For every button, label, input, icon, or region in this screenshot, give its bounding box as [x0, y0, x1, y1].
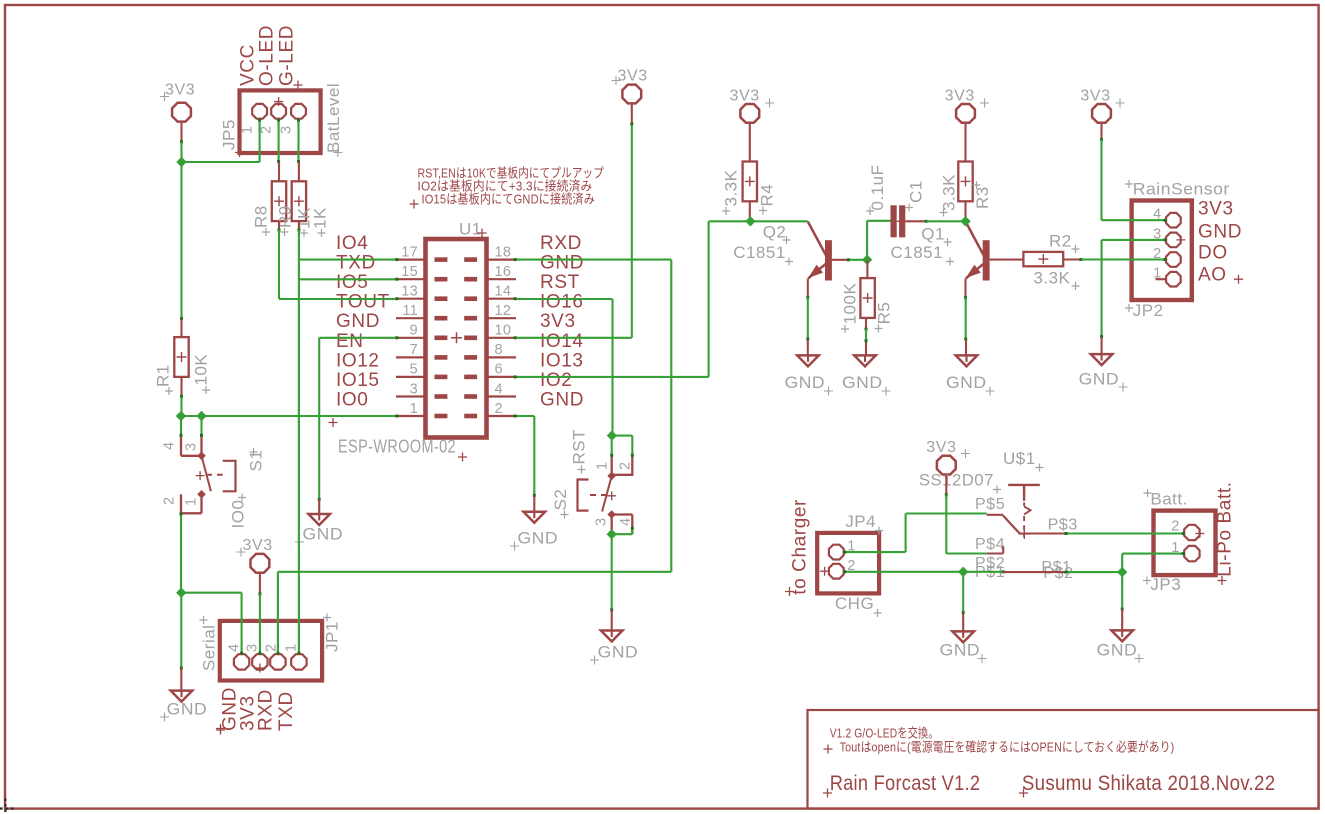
supply 3V3 (top middle, feeds U1 pin10): [612, 68, 648, 104]
wire junction to P$1: [963, 571, 1003, 573]
wire to P$5: [906, 512, 987, 514]
svg-text:RST: RST: [570, 429, 589, 465]
U1 pin leads and pads: [396, 257, 516, 418]
wire R5 bottom stub: [865, 318, 867, 329]
svg-text:GND: GND: [1079, 370, 1120, 389]
svg-text:IO0: IO0: [229, 500, 248, 529]
svg-text:3V3: 3V3: [165, 82, 195, 99]
ground (R5): [842, 355, 891, 395]
wire JP3 ground drop: [1121, 572, 1123, 609]
switch S1 IO0 pushbutton: [181, 435, 236, 513]
JP4 value CHG: [835, 594, 882, 617]
wire S2 pin4 bottom link: [612, 533, 633, 535]
svg-text:Q1: Q1: [921, 225, 945, 244]
junction Q2 base R5 C1: [862, 255, 872, 265]
connector JP1 Serial: [216, 621, 322, 733]
note box texts: [823, 726, 1275, 798]
svg-text:U$1: U$1: [1003, 449, 1036, 468]
U1 value label ESP-WROOM-02: [338, 437, 467, 462]
wire Q1 ground stub: [965, 339, 967, 355]
R2 labels: [1033, 232, 1079, 291]
svg-text:12: 12: [495, 303, 512, 319]
JP1 value Serial: [200, 616, 219, 671]
JP4 pin numbers: [847, 539, 855, 574]
wire GND row drop: [318, 338, 320, 499]
svg-text:IO0: IO0: [336, 389, 368, 410]
wire S2 pin2 branch: [612, 435, 632, 437]
wire rail to ground: [180, 593, 182, 669]
wire 3V3 to R3: [964, 123, 966, 161]
wire JP1 pin2 riser: [277, 572, 279, 654]
S1 refdes: [247, 448, 266, 472]
svg-text:3: 3: [594, 518, 610, 526]
wire R5 to ground: [865, 329, 867, 341]
svg-text:DO: DO: [1198, 243, 1228, 264]
svg-text:JP4: JP4: [845, 512, 876, 531]
svg-text:R2: R2: [1049, 232, 1072, 251]
wire IO4 row: [299, 259, 396, 261]
wire TXD net vertical R9 to JP1 pin1: [298, 230, 300, 654]
connector JP4 CHG to-Charger: [817, 533, 879, 594]
svg-text:AO: AO: [1198, 265, 1227, 286]
JP2 value RainSensor: [1125, 180, 1230, 199]
wire P$4 pin lead: [987, 552, 1004, 554]
svg-text:3: 3: [279, 126, 295, 134]
svg-text:GND: GND: [1097, 641, 1138, 660]
wire S2 pin3 to ground: [611, 534, 613, 609]
svg-text:3V3: 3V3: [730, 88, 760, 105]
Q2 labels: [733, 223, 793, 266]
Q1 labels: [891, 225, 955, 266]
resistor R2 body: [1023, 252, 1063, 266]
resistor R4 body: [743, 162, 757, 202]
U1 pin names right: [540, 233, 584, 410]
wire 3V3 JP2 stub: [1100, 123, 1102, 139]
svg-text:3: 3: [245, 644, 261, 652]
svg-text:IO15: IO15: [336, 370, 380, 391]
svg-text:3V3: 3V3: [926, 439, 956, 456]
svg-text:14: 14: [495, 284, 512, 300]
junction serial GND branch: [176, 588, 186, 598]
svg-text:JP5: JP5: [220, 119, 239, 150]
wire Q1 emitter to ground: [965, 297, 967, 339]
wire junction to C1: [866, 221, 868, 260]
wire R2 right stub: [1063, 258, 1081, 260]
svg-text:R8: R8: [252, 205, 271, 228]
svg-text:2: 2: [1171, 519, 1179, 535]
svg-text:GND: GND: [946, 373, 987, 392]
wire GND stub U1 pin9: [318, 499, 320, 514]
wire Q2 base to R5 C1 junction: [850, 259, 867, 261]
resistor R1 body: [174, 337, 188, 377]
wire C1 right stub: [905, 220, 926, 222]
svg-text:16: 16: [495, 264, 512, 280]
ground (U1 pin9 row): [295, 514, 343, 547]
JP1 pin numbers: [227, 644, 300, 652]
svg-text:ESP-WROOM-02: ESP-WROOM-02: [338, 437, 456, 457]
wire Q2 emitter drop: [807, 279, 809, 298]
wire 3V3 down to P$4 row: [945, 495, 947, 554]
svg-text:2: 2: [618, 462, 634, 470]
JP4 name to Charger: [785, 499, 811, 596]
svg-text:0.1uF: 0.1uF: [868, 165, 887, 211]
supply 3V3 (above U$1 switch): [926, 439, 970, 475]
connector JP2 RainSensor: [1132, 201, 1243, 301]
wire R2 to JP2 pin2: [1081, 258, 1166, 260]
svg-text:JP2: JP2: [1133, 301, 1164, 320]
resistor R3 body: [958, 162, 972, 202]
R4 labels: [722, 169, 777, 215]
transistor Q1 C1851: [966, 222, 990, 281]
svg-text:GND: GND: [940, 641, 981, 660]
wire P$3 to JP3 pin2: [1066, 532, 1184, 534]
wire endpoint dots at U1 pins: [395, 258, 398, 261]
wire R9 top stub: [298, 162, 300, 182]
wire ground stub left rail: [180, 668, 182, 690]
wire 3V3 to JP5 pin1: [182, 161, 260, 163]
JP5 pin names VCC O-LED G-LED: [238, 25, 303, 90]
svg-text:100K: 100K: [841, 283, 860, 325]
svg-text:4: 4: [227, 644, 243, 652]
wire 3V3 left rail upper: [180, 142, 182, 163]
wire RST row U1 pin14: [516, 298, 613, 300]
wire JP2 pin3 to ground: [1101, 240, 1103, 337]
wire 3V3 mid stub: [631, 104, 633, 124]
svg-text:RST: RST: [540, 272, 580, 293]
svg-text:9: 9: [410, 323, 418, 339]
wire S1 pin4 drop: [180, 416, 182, 436]
svg-text:17: 17: [401, 244, 418, 260]
JP5 refdes: [220, 119, 239, 150]
svg-text:P$5: P$5: [975, 496, 1005, 513]
U1 pin numbers right: [495, 244, 512, 416]
svg-text:C1851: C1851: [891, 243, 944, 262]
JP2 pin names: [1198, 199, 1242, 286]
wire GND row U1 pin9: [319, 337, 396, 339]
svg-text:V1.2 G/O-LEDを交換。: V1.2 G/O-LEDを交換。: [830, 726, 939, 741]
sheet origin dotted crosshair: [0, 807, 17, 809]
svg-text:3V3: 3V3: [243, 537, 273, 554]
wire to JP2 pin4: [1102, 219, 1166, 221]
wire JP3 ground stub: [1121, 609, 1123, 631]
ground (S2): [590, 631, 638, 665]
svg-text:7: 7: [410, 342, 418, 358]
svg-text:G-LED: G-LED: [277, 25, 298, 86]
title note box: [808, 710, 1319, 809]
svg-text:RXD: RXD: [256, 689, 277, 731]
svg-text:Rain Forcast V1.2: Rain Forcast V1.2: [830, 772, 981, 795]
S2 pin numbers: [594, 462, 635, 526]
supply 3V3 (left, feeds JP5): [160, 82, 195, 122]
wire R5 ground stub: [865, 341, 867, 355]
wire 3V3 to R4: [749, 123, 751, 161]
U1 pin numbers left: [401, 244, 418, 416]
svg-text:1: 1: [284, 644, 300, 652]
wire R3 bottom stub: [964, 201, 966, 221]
svg-text:JP3: JP3: [1150, 575, 1181, 594]
wire Q2 base stub: [832, 259, 850, 261]
ground (JP4 / bottom left): [940, 631, 987, 663]
svg-text:15: 15: [401, 264, 418, 280]
svg-text:GND: GND: [518, 529, 559, 548]
svg-text:1: 1: [184, 498, 200, 506]
wire rail to JP1 pin4: [181, 592, 241, 594]
svg-text:2: 2: [495, 401, 503, 417]
svg-text:GND: GND: [1198, 222, 1242, 243]
svg-text:Serial: Serial: [200, 625, 219, 671]
svg-text:IO13: IO13: [540, 350, 584, 371]
wire RST vertical to S2: [611, 299, 613, 436]
svg-text:SS12D07: SS12D07: [919, 471, 994, 490]
capacitor C1 plates: [891, 205, 906, 237]
R1 labels: [154, 354, 211, 395]
svg-text:1: 1: [240, 126, 256, 134]
svg-text:3V3: 3V3: [945, 88, 975, 105]
wire JP4 pin1 out: [844, 551, 905, 553]
wire JP4 ground drop: [962, 572, 964, 613]
U$1 refdes: [1003, 449, 1044, 472]
svg-text:RainSensor: RainSensor: [1133, 180, 1230, 199]
ground (JP3 / bottom right): [1097, 630, 1144, 663]
svg-text:to Charger: to Charger: [790, 499, 811, 595]
svg-text:5: 5: [410, 362, 418, 378]
svg-text:O-LED: O-LED: [257, 25, 278, 86]
svg-text:TXD: TXD: [276, 691, 297, 731]
ground (left rail / JP1): [160, 691, 207, 722]
wire RXD vertical: [670, 260, 672, 572]
junction IO0 row left: [176, 411, 186, 421]
svg-text:Li-Po Batt.: Li-Po Batt.: [1215, 481, 1236, 576]
S1 pin numbers: [162, 442, 200, 506]
wire R8 to IO5 row: [278, 230, 280, 299]
svg-text:2: 2: [162, 497, 178, 505]
wire P$5 pin lead: [987, 514, 1004, 516]
JP1 pin names GND 3V3 RXD TXD: [216, 687, 297, 735]
svg-text:R3: R3: [973, 186, 992, 209]
JP5 value BatLevel: [324, 83, 343, 157]
wire R9 bottom stub: [298, 221, 300, 230]
svg-text:3V3: 3V3: [1198, 199, 1234, 220]
connector JP5 BatLevel: [235, 90, 321, 157]
svg-text:3V3: 3V3: [540, 311, 576, 332]
svg-text:BatLevel: BatLevel: [324, 83, 343, 153]
U$1 value SS12D07: [919, 471, 1001, 494]
switch U$1 SS12D07: [1003, 485, 1040, 539]
JP2 pin numbers: [1153, 207, 1161, 282]
wire 3V3 serial stub: [259, 573, 261, 594]
svg-text:11: 11: [402, 303, 418, 319]
R8 R9 labels: [252, 205, 330, 237]
svg-text:S2: S2: [551, 489, 570, 511]
wire IO0 row to U1 pin1: [181, 415, 396, 417]
svg-text:GND: GND: [303, 525, 344, 544]
svg-text:6: 6: [495, 362, 503, 378]
svg-text:4: 4: [162, 442, 178, 450]
wire S2 ground stub: [611, 610, 613, 631]
junction JP4 GND: [958, 567, 968, 577]
svg-text:R4: R4: [758, 184, 777, 207]
wire JP2 pin3 row: [1102, 239, 1166, 241]
svg-text:3.3K: 3.3K: [940, 174, 959, 211]
switch S2 RST pushbutton: [578, 455, 633, 534]
svg-text:GND: GND: [540, 253, 584, 274]
junction R3 Q1 collector: [960, 216, 970, 226]
svg-text:10K: 10K: [192, 354, 211, 386]
svg-text:1K: 1K: [311, 207, 330, 229]
U$1 pin labels: [975, 496, 1078, 582]
junction R4 Q2 collector: [745, 216, 755, 226]
wire Q1 base to R2: [990, 259, 1024, 261]
note text about pullups: [410, 166, 605, 209]
wire GND stub U1 pin2: [533, 495, 535, 512]
S2 value RST: [570, 429, 589, 474]
svg-text:3V3: 3V3: [618, 68, 648, 85]
svg-text:3.3K: 3.3K: [722, 169, 741, 206]
wire JP5 pin2 to R8: [278, 119, 280, 161]
wire Q2 emitter to ground: [807, 297, 809, 339]
R3 labels: [940, 174, 993, 217]
wire IO13 vertical: [708, 221, 710, 377]
JP3 refdes: [1143, 575, 1181, 594]
wire 3V3 U$1 stub: [945, 475, 947, 495]
wire RXD horizontal to JP1 pin2: [278, 571, 671, 573]
svg-text:10: 10: [495, 323, 512, 339]
wire junction to Q2 collector: [750, 220, 807, 222]
svg-text:1: 1: [595, 462, 611, 470]
S1 value IO0: [229, 494, 248, 529]
wire R1 to IO0 row: [180, 397, 182, 416]
svg-text:R5: R5: [875, 302, 894, 325]
wire P$2 to JP3 junction: [1066, 571, 1122, 573]
wire R1 bottom stub: [180, 377, 182, 397]
wire JP4 ground stub: [962, 613, 964, 632]
svg-text:GND: GND: [167, 700, 208, 719]
svg-text:2: 2: [259, 126, 275, 134]
wire S1 pin3 drop: [200, 416, 202, 436]
svg-text:IO2: IO2: [540, 370, 572, 391]
wire JP4 pin1 riser: [905, 514, 907, 553]
svg-text:IO5: IO5: [336, 272, 368, 293]
wire R8 bottom stub: [278, 221, 280, 230]
wire R5 top stub: [866, 260, 868, 278]
svg-text:TXD: TXD: [336, 253, 376, 274]
ground (JP2): [1079, 354, 1128, 391]
svg-text:GND: GND: [785, 373, 826, 392]
wire 3V3 left stub: [180, 122, 182, 142]
svg-text:EN: EN: [336, 331, 364, 352]
svg-text:CHG: CHG: [835, 594, 874, 613]
wire IO13 to R4 junction: [709, 220, 751, 222]
svg-text:U1: U1: [459, 220, 482, 239]
svg-text:GND: GND: [842, 373, 883, 392]
svg-text:Batt.: Batt.: [1150, 490, 1187, 509]
svg-text:IO4: IO4: [336, 233, 368, 254]
JP3 name Li-Po Batt.: [1215, 481, 1236, 585]
supply 3V3 (above JP1 serial): [237, 537, 273, 573]
wire Q1 emitter drop: [964, 279, 966, 298]
wire R1 top stub: [180, 319, 182, 337]
wire TXD row: [299, 278, 396, 280]
C1 labels: [866, 165, 926, 215]
junction 3V3 rail top: [176, 157, 186, 167]
svg-text:IO14: IO14: [540, 331, 584, 352]
JP3 pin numbers: [1171, 519, 1179, 557]
wire S2 pin1 drop: [611, 436, 613, 456]
svg-text:Susumu Shikata 2018.Nov.22: Susumu Shikata 2018.Nov.22: [1022, 772, 1276, 795]
svg-text:8: 8: [495, 342, 503, 358]
svg-text:GND: GND: [540, 389, 584, 410]
svg-text:IO16: IO16: [540, 292, 584, 313]
JP4 refdes: [845, 512, 883, 535]
wire R4 bottom stub: [749, 201, 751, 221]
wire JP2 ground stub: [1101, 337, 1103, 354]
svg-text:GND: GND: [598, 643, 639, 662]
connector JP3 Li-Po Batt: [1154, 511, 1216, 575]
svg-text:TOUT: TOUT: [336, 292, 390, 313]
svg-text:4: 4: [618, 518, 634, 526]
wire rail to R1: [180, 162, 182, 319]
svg-text:IO15は基板内にてGNDに接続済み: IO15は基板内にてGNDに接続済み: [422, 192, 596, 207]
svg-text:GND: GND: [336, 311, 380, 332]
wire 3V3 down to JP2 pin4 row: [1100, 139, 1102, 220]
svg-text:13: 13: [401, 284, 418, 300]
supply 3V3 (above R4): [730, 88, 775, 123]
svg-text:VCC: VCC: [238, 44, 259, 86]
svg-text:4: 4: [495, 381, 503, 397]
transistor Q2 C1851: [808, 222, 832, 281]
svg-text:IO12: IO12: [336, 350, 380, 371]
svg-text:R1: R1: [154, 364, 173, 387]
svg-text:RXD: RXD: [540, 233, 582, 254]
JP3 value Batt.: [1144, 489, 1188, 509]
wire IO13 row U1 pin6: [516, 376, 709, 378]
svg-text:3: 3: [410, 381, 418, 397]
svg-text:3: 3: [184, 443, 200, 451]
wire to P$4: [946, 552, 986, 554]
wire JP5 pin3 to R9: [297, 119, 299, 161]
wire 3V3 row U1 pin10: [516, 337, 632, 339]
wire P$1 P$2 pin leads: [1003, 571, 1066, 573]
resistor R5 body: [860, 278, 874, 318]
resistor R9 body: [292, 181, 306, 221]
svg-text:3V3: 3V3: [1080, 88, 1110, 105]
svg-text:Q2: Q2: [763, 223, 787, 242]
JP1 refdes: [323, 614, 342, 653]
wire 3V3 serial to JP1 pin3: [259, 594, 261, 654]
resistor R8 body: [272, 181, 286, 221]
svg-text:S1: S1: [247, 450, 266, 472]
supply 3V3 (above JP2): [1080, 88, 1124, 123]
wire P$3 pin lead: [1018, 532, 1064, 534]
junction JP3 GND: [1117, 567, 1127, 577]
svg-text:3.3K: 3.3K: [1033, 269, 1070, 288]
junction S2 bottom: [607, 529, 617, 539]
ground (Q1 emitter): [946, 355, 995, 395]
wire GND row U1 pin2: [516, 415, 534, 417]
R5 labels: [841, 283, 894, 333]
svg-text:18: 18: [495, 244, 512, 260]
ground (Q2 emitter): [785, 355, 833, 395]
wire 3V3 top vertical: [631, 123, 633, 337]
op-amp U1 ESP-WROOM-02 module body: [426, 239, 487, 438]
junction IO0 row S1 branch: [196, 411, 206, 421]
wire R8 top stub: [278, 162, 280, 182]
supply 3V3 (above R3): [945, 88, 989, 123]
wire C1 to R3 junction: [926, 220, 965, 222]
U1 pin names left: [329, 233, 390, 427]
svg-text:C1: C1: [907, 180, 926, 203]
svg-text:P$4: P$4: [975, 536, 1005, 553]
